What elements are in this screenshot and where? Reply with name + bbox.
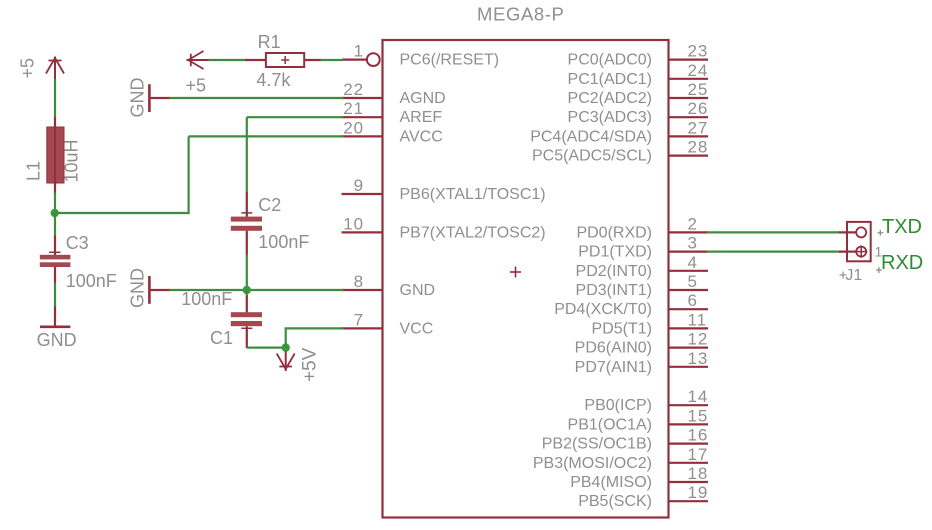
svg-text:GND: GND <box>37 330 77 350</box>
capacitor C1 <box>231 296 262 349</box>
pin 6 stub <box>669 308 709 310</box>
svg-text:PC2(ADC2): PC2(ADC2) <box>568 90 652 107</box>
svg-text:28: 28 <box>688 138 709 157</box>
svg-text:PC1(ADC1): PC1(ADC1) <box>568 71 652 88</box>
wire junction to AVCC <box>55 136 344 214</box>
wire pin 2 to J1 (TXD) <box>707 231 856 233</box>
pin name PD6(AIN0) <box>575 340 652 357</box>
capacitor C2 value 100nF <box>258 232 309 252</box>
pin 14 stub <box>669 404 709 406</box>
svg-text:C1: C1 <box>210 328 233 348</box>
+5 supply symbol (reset pullup) <box>187 51 211 69</box>
svg-text:TXD: TXD <box>882 216 922 238</box>
capacitor C2 label <box>258 195 281 215</box>
svg-text:RXD: RXD <box>881 252 923 274</box>
svg-text:R1: R1 <box>258 32 281 52</box>
capacitor C2 <box>231 193 262 256</box>
pin 18 stub <box>669 481 709 483</box>
svg-text:PC6(/RESET): PC6(/RESET) <box>400 52 500 69</box>
svg-text:AGND: AGND <box>400 90 446 107</box>
wire junction to C3 <box>54 213 56 237</box>
pin 21 number <box>343 99 364 118</box>
wire pin 3 to J1 (RXD) <box>707 251 856 253</box>
svg-text:11: 11 <box>688 310 707 329</box>
pin 17 number <box>688 445 709 464</box>
svg-text:19: 19 <box>688 483 709 502</box>
pin name PB2(SS/OC1B) <box>542 436 652 453</box>
svg-text:PD7(AIN1): PD7(AIN1) <box>575 359 652 376</box>
svg-text:PC4(ADC4/SDA): PC4(ADC4/SDA) <box>530 128 652 145</box>
resistor R1 label <box>258 32 281 52</box>
pin 18 number <box>688 464 709 483</box>
pin 24 stub <box>669 78 709 80</box>
svg-text:3: 3 <box>688 234 698 253</box>
pin 3 stub <box>669 251 709 253</box>
net label RXD <box>876 252 923 274</box>
capacitor C3 <box>40 236 71 284</box>
wire L1 to junction <box>54 193 56 215</box>
svg-text:PB4(MISO): PB4(MISO) <box>570 474 652 491</box>
svg-text:J1: J1 <box>845 267 862 284</box>
svg-text:21: 21 <box>343 99 364 118</box>
svg-text:+5: +5 <box>18 58 38 79</box>
pin 17 stub <box>669 462 709 464</box>
pin name PD2(INT0) <box>576 263 652 280</box>
pin name PD3(INT1) <box>576 282 652 299</box>
svg-text:6: 6 <box>688 291 698 310</box>
svg-text:16: 16 <box>688 426 709 445</box>
pin name PD7(AIN1) <box>575 359 652 376</box>
svg-text:L1: L1 <box>24 161 44 181</box>
capacitor C3 value 100nF <box>66 271 117 291</box>
pin 19 stub <box>669 500 709 502</box>
svg-text:100nF: 100nF <box>258 232 309 252</box>
svg-text:PD3(INT1): PD3(INT1) <box>576 282 652 299</box>
pin 26 stub <box>669 116 709 118</box>
pin name GND <box>400 282 436 299</box>
pin 12 stub <box>669 347 709 349</box>
IC U1 origin cross <box>510 267 521 278</box>
svg-text:10uH: 10uH <box>62 139 82 182</box>
pin 4 stub <box>669 270 709 272</box>
svg-text:GND: GND <box>128 268 148 308</box>
svg-text:PD5(T1): PD5(T1) <box>592 320 652 337</box>
pin name PC0(ADC0) <box>568 52 652 69</box>
+5V supply symbol (VCC) <box>277 351 295 371</box>
pin 13 number <box>688 349 709 368</box>
svg-text:27: 27 <box>688 118 709 137</box>
svg-text:VCC: VCC <box>400 320 434 337</box>
ground GND label (AGND net) <box>128 78 148 118</box>
connector J1 pin 1 mark <box>875 244 883 260</box>
pin name PC6(/RESET) <box>400 52 500 69</box>
pin 9 stub <box>342 193 383 195</box>
pin 26 number <box>688 99 709 118</box>
pin 10 number <box>343 214 364 233</box>
svg-text:PB6(XTAL1/TOSC1): PB6(XTAL1/TOSC1) <box>400 186 546 203</box>
svg-text:PB5(SCK): PB5(SCK) <box>578 493 652 510</box>
ground GND (AGND net) <box>149 84 170 112</box>
pin 2 stub <box>669 231 709 233</box>
junction node +5V <box>282 343 290 351</box>
svg-text:C2: C2 <box>258 195 281 215</box>
ground GND label (digital net) <box>128 268 148 308</box>
svg-text:PB3(MOSI/OC2): PB3(MOSI/OC2) <box>533 455 652 472</box>
pin 20 number <box>343 118 364 137</box>
pin 6 number <box>688 291 698 310</box>
svg-text:14: 14 <box>688 387 709 406</box>
+5V label <box>300 347 321 382</box>
pin name PC1(ADC1) <box>568 71 652 88</box>
pin 11 stub <box>669 327 709 329</box>
pin 19 number <box>688 483 709 502</box>
pin 3 number <box>688 234 698 253</box>
svg-text:12: 12 <box>688 330 709 349</box>
pin 5 number <box>688 272 698 291</box>
pin 23 number <box>688 42 709 61</box>
svg-text:PB1(OC1A): PB1(OC1A) <box>568 416 652 433</box>
+5 supply symbol top-left <box>46 57 64 81</box>
svg-text:5: 5 <box>688 272 698 291</box>
pin 13 stub <box>669 366 709 368</box>
svg-text:MEGA8-P: MEGA8-P <box>477 3 564 24</box>
pin name PB7(XTAL2/TOSC2) <box>400 224 546 241</box>
wire junction to VCC pin 7 <box>285 328 344 347</box>
svg-text:PD2(INT0): PD2(INT0) <box>576 263 652 280</box>
junction node GND <box>243 286 251 294</box>
pin 20 stub <box>342 135 383 137</box>
wire R1 to pin 1 <box>320 59 343 61</box>
connector J1 label <box>840 267 863 284</box>
pin name VCC <box>400 320 434 337</box>
pin name PB4(MISO) <box>570 474 652 491</box>
svg-text:24: 24 <box>688 61 709 80</box>
pin name PC2(ADC2) <box>568 90 652 107</box>
pin 1 stub <box>342 53 380 66</box>
pin 8 stub <box>342 289 383 291</box>
svg-text:PD6(AIN0): PD6(AIN0) <box>575 340 652 357</box>
pin name PD0(RXD) <box>576 224 652 241</box>
pin name PC4(ADC4/SDA) <box>530 128 652 145</box>
wire C2 to GND net <box>246 254 248 290</box>
svg-text:+5: +5 <box>186 76 207 96</box>
svg-text:PD4(XCK/T0): PD4(XCK/T0) <box>554 301 652 318</box>
wire C1 to +5V junction <box>247 347 286 349</box>
pin 23 stub <box>669 58 709 60</box>
svg-text:2: 2 <box>688 214 698 233</box>
pin 7 number <box>354 310 364 329</box>
capacitor C3 label <box>66 233 89 253</box>
inductor L1 value 10uH <box>62 139 82 182</box>
ground GND bottom-left <box>40 307 70 327</box>
svg-text:C3: C3 <box>66 233 89 253</box>
wire +5 to R1 <box>209 59 247 61</box>
pin 27 number <box>688 118 709 137</box>
pin 25 number <box>688 80 709 99</box>
inductor L1 <box>47 117 64 194</box>
pin 24 number <box>688 61 709 80</box>
IC U1 name MEGA8-P <box>477 3 564 24</box>
ground GND bottom-left label <box>37 330 77 350</box>
pin 5 stub <box>669 289 709 291</box>
svg-text:PB2(SS/OC1B): PB2(SS/OC1B) <box>542 436 652 453</box>
pin 28 stub <box>669 155 709 157</box>
svg-text:9: 9 <box>354 176 364 195</box>
pin 16 stub <box>669 443 709 445</box>
pin name PB6(XTAL1/TOSC1) <box>400 186 546 203</box>
svg-text:23: 23 <box>688 42 709 61</box>
wire AGND <box>170 97 344 99</box>
svg-text:PD0(RXD): PD0(RXD) <box>576 224 652 241</box>
svg-text:20: 20 <box>343 118 364 137</box>
pin 10 stub <box>342 231 383 233</box>
pin name PB0(ICP) <box>584 397 652 414</box>
wire junction to C1 <box>246 290 248 297</box>
svg-text:10: 10 <box>343 214 364 233</box>
svg-text:26: 26 <box>688 99 709 118</box>
pin name AREF <box>400 109 443 126</box>
connector J1 <box>847 222 871 261</box>
svg-text:PC3(ADC3): PC3(ADC3) <box>568 109 652 126</box>
resistor R1 value 4.7k <box>256 70 291 90</box>
capacitor C1 value 100nF <box>181 289 232 309</box>
+5 label (reset pullup) <box>186 76 207 96</box>
pin 8 number <box>354 272 364 291</box>
svg-text:AREF: AREF <box>400 109 443 126</box>
pin name AGND <box>400 90 446 107</box>
svg-text:AVCC: AVCC <box>400 128 443 145</box>
svg-text:4.7k: 4.7k <box>256 70 291 90</box>
svg-text:+5V: +5V <box>300 347 321 382</box>
svg-text:100nF: 100nF <box>181 289 232 309</box>
svg-text:PC0(ADC0): PC0(ADC0) <box>568 52 652 69</box>
pin 27 stub <box>669 135 709 137</box>
pin 16 number <box>688 426 709 445</box>
pin 1 number <box>354 42 364 61</box>
svg-text:25: 25 <box>688 80 709 99</box>
wire +5 to L1 <box>54 79 56 118</box>
pin 25 stub <box>669 97 709 99</box>
wire AREF to C2 <box>247 117 344 193</box>
pin name PD1(TXD) <box>578 244 652 261</box>
pin 11 number <box>688 310 707 329</box>
pin 28 number <box>688 138 709 157</box>
svg-text:PC5(ADC5/SCL): PC5(ADC5/SCL) <box>532 148 652 165</box>
svg-text:15: 15 <box>688 406 709 425</box>
pin name PC3(ADC3) <box>568 109 652 126</box>
wire C3 to ground <box>54 283 56 308</box>
pin 14 number <box>688 387 709 406</box>
junction node A (L1/AVCC/C3) <box>51 209 59 217</box>
resistor R1 <box>245 53 321 67</box>
pin name PB3(MOSI/OC2) <box>533 455 652 472</box>
pin name AVCC <box>400 128 443 145</box>
svg-text:18: 18 <box>688 464 709 483</box>
pin name PC5(ADC5/SCL) <box>532 148 652 165</box>
svg-text:17: 17 <box>688 445 709 464</box>
pin 2 number <box>688 214 698 233</box>
+5 label top-left <box>18 58 38 79</box>
pin name PD5(T1) <box>592 320 652 337</box>
pin name PD4(XCK/T0) <box>554 301 652 318</box>
pin 7 stub <box>342 327 383 329</box>
pin 22 number <box>343 80 364 99</box>
svg-text:22: 22 <box>343 80 364 99</box>
svg-text:PD1(TXD): PD1(TXD) <box>578 244 652 261</box>
svg-text:PB7(XTAL2/TOSC2): PB7(XTAL2/TOSC2) <box>400 224 546 241</box>
ground GND (digital net) <box>149 276 170 304</box>
pin 12 number <box>688 330 709 349</box>
pin 15 stub <box>669 423 709 425</box>
pin 4 number <box>688 253 698 272</box>
svg-text:7: 7 <box>354 310 364 329</box>
svg-text:100nF: 100nF <box>66 271 117 291</box>
svg-text:1: 1 <box>354 42 364 61</box>
svg-text:13: 13 <box>688 349 709 368</box>
svg-text:PB0(ICP): PB0(ICP) <box>584 397 652 414</box>
pin 9 number <box>354 176 364 195</box>
pin 21 stub <box>342 116 383 118</box>
inductor L1 label <box>24 161 44 181</box>
net label TXD <box>877 216 922 238</box>
capacitor C1 label <box>210 328 233 348</box>
wire GND net to pin 8 <box>170 289 344 291</box>
pin 22 stub <box>342 97 383 99</box>
pin name PB1(OC1A) <box>568 416 652 433</box>
IC U1 MEGA8-P body <box>383 40 669 518</box>
svg-text:GND: GND <box>400 282 436 299</box>
pin 15 number <box>688 406 709 425</box>
pin name PB5(SCK) <box>578 493 652 510</box>
svg-text:4: 4 <box>688 253 698 272</box>
svg-text:8: 8 <box>354 272 364 291</box>
svg-text:GND: GND <box>128 78 148 118</box>
